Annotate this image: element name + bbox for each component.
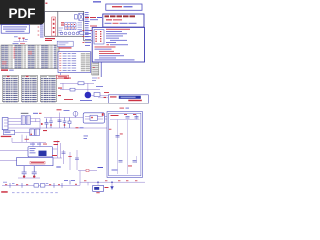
fuse F1 <box>73 111 78 116</box>
pin labels right of U1 <box>85 12 89 37</box>
ferrite bead (filled dot) <box>85 92 92 99</box>
wire bus mid <box>60 83 112 96</box>
PWM controller U2 <box>28 147 53 157</box>
feedback wires <box>53 141 78 171</box>
resistor R5 <box>69 118 71 129</box>
battery connector <box>3 130 14 134</box>
note box R2 <box>103 14 144 27</box>
cap C22 <box>62 152 66 154</box>
snubber boxes on rail <box>34 184 39 187</box>
net label +B (red) <box>52 141 60 156</box>
pin red ticks <box>38 27 40 36</box>
table A gray cells <box>1 45 59 68</box>
opto coupler box <box>17 157 53 165</box>
shield inner circuit <box>110 114 140 174</box>
wire from left edge <box>0 151 40 179</box>
pinout table A <box>1 45 59 69</box>
pin labels left of U1 <box>40 25 44 38</box>
ground rail <box>2 184 80 186</box>
caps in shield top <box>126 117 139 119</box>
+5V net label <box>98 167 104 168</box>
net label stubs <box>84 136 89 139</box>
pin table D <box>92 52 99 75</box>
table A text marks <box>1 45 56 68</box>
note text (red) <box>1 191 8 193</box>
pin table B3 <box>41 76 57 103</box>
electrolytic cap C21 <box>32 166 37 178</box>
circuit fragment below notes <box>14 39 28 42</box>
annotation box (red, vertical) <box>52 17 56 36</box>
EMI shield box (double border) <box>107 112 143 178</box>
internal pin names right portion <box>78 22 83 32</box>
labels above U2 <box>30 143 41 146</box>
sub connector diagram <box>94 30 104 44</box>
label battery (red) <box>1 136 12 137</box>
bus wire vertical <box>100 45 102 77</box>
IC U1 main block <box>45 11 84 40</box>
pad circles row <box>60 31 84 35</box>
caps bottom shield <box>119 161 137 163</box>
pin table B1 <box>3 76 19 102</box>
note box R-top <box>106 4 142 10</box>
input connector CN1 <box>2 118 8 130</box>
red net labels <box>58 88 62 89</box>
annotation text top <box>45 3 47 4</box>
resistor pack RP1 marks <box>61 22 64 25</box>
block corner lines <box>84 41 97 47</box>
output rectifier module box <box>83 113 107 123</box>
cap C23 <box>75 158 79 160</box>
net label <box>93 1 101 3</box>
red annotation box right of tables <box>57 75 69 79</box>
secondary rail <box>80 181 146 183</box>
label in shield <box>112 170 118 171</box>
series resistor <box>70 88 75 91</box>
resistor R20 <box>69 152 71 170</box>
connector grid inside U1 <box>65 23 76 30</box>
cap mid shield <box>116 136 120 138</box>
output module <box>93 185 109 191</box>
pin stubs left of R3 <box>85 30 91 46</box>
diode D5 <box>111 186 114 190</box>
note underline dotted <box>12 191 58 194</box>
label above shield <box>120 108 125 109</box>
primary wires <box>8 119 44 131</box>
wire row above ground rail <box>78 171 97 186</box>
signal table C <box>58 52 91 73</box>
series resistor <box>78 82 84 85</box>
text lines <box>95 29 131 54</box>
transformer T1 <box>21 116 30 125</box>
value label under U1 <box>45 38 55 41</box>
electrolytic cap C20 <box>22 166 27 178</box>
note box R3 <box>92 27 144 62</box>
rail net labels <box>64 179 75 182</box>
cap under output module <box>96 192 99 193</box>
wires to controller <box>12 132 46 146</box>
label LCD interface (red) <box>1 69 14 71</box>
rail components <box>10 180 70 188</box>
page edge separator <box>0 102 149 104</box>
capacitor C13 <box>63 118 67 129</box>
relay K1 <box>30 129 40 136</box>
capacitor C10 <box>45 119 49 129</box>
IO box above table C <box>57 41 73 46</box>
net stub below TX <box>76 126 79 129</box>
label SW_PW <box>21 113 29 114</box>
svg-text:PDF: PDF <box>9 6 36 21</box>
capacitor C12 <box>49 118 53 129</box>
net stubs below table D <box>92 78 97 81</box>
small filter box <box>94 93 100 97</box>
+5V label <box>56 167 61 168</box>
crystal Y1 <box>75 13 84 20</box>
PDF badge <box>0 0 45 25</box>
title block <box>98 95 148 104</box>
net labels middle <box>64 78 109 100</box>
table D red marks <box>93 55 95 68</box>
net label K1 out <box>25 139 30 140</box>
net names right <box>90 17 102 31</box>
pin table B2 <box>22 76 38 103</box>
notes box N1 <box>1 25 29 34</box>
internal labels U1 <box>59 28 64 33</box>
red cells in table A <box>2 47 32 64</box>
capacitor C11 <box>58 120 62 122</box>
wire to EMI filter <box>44 112 107 129</box>
